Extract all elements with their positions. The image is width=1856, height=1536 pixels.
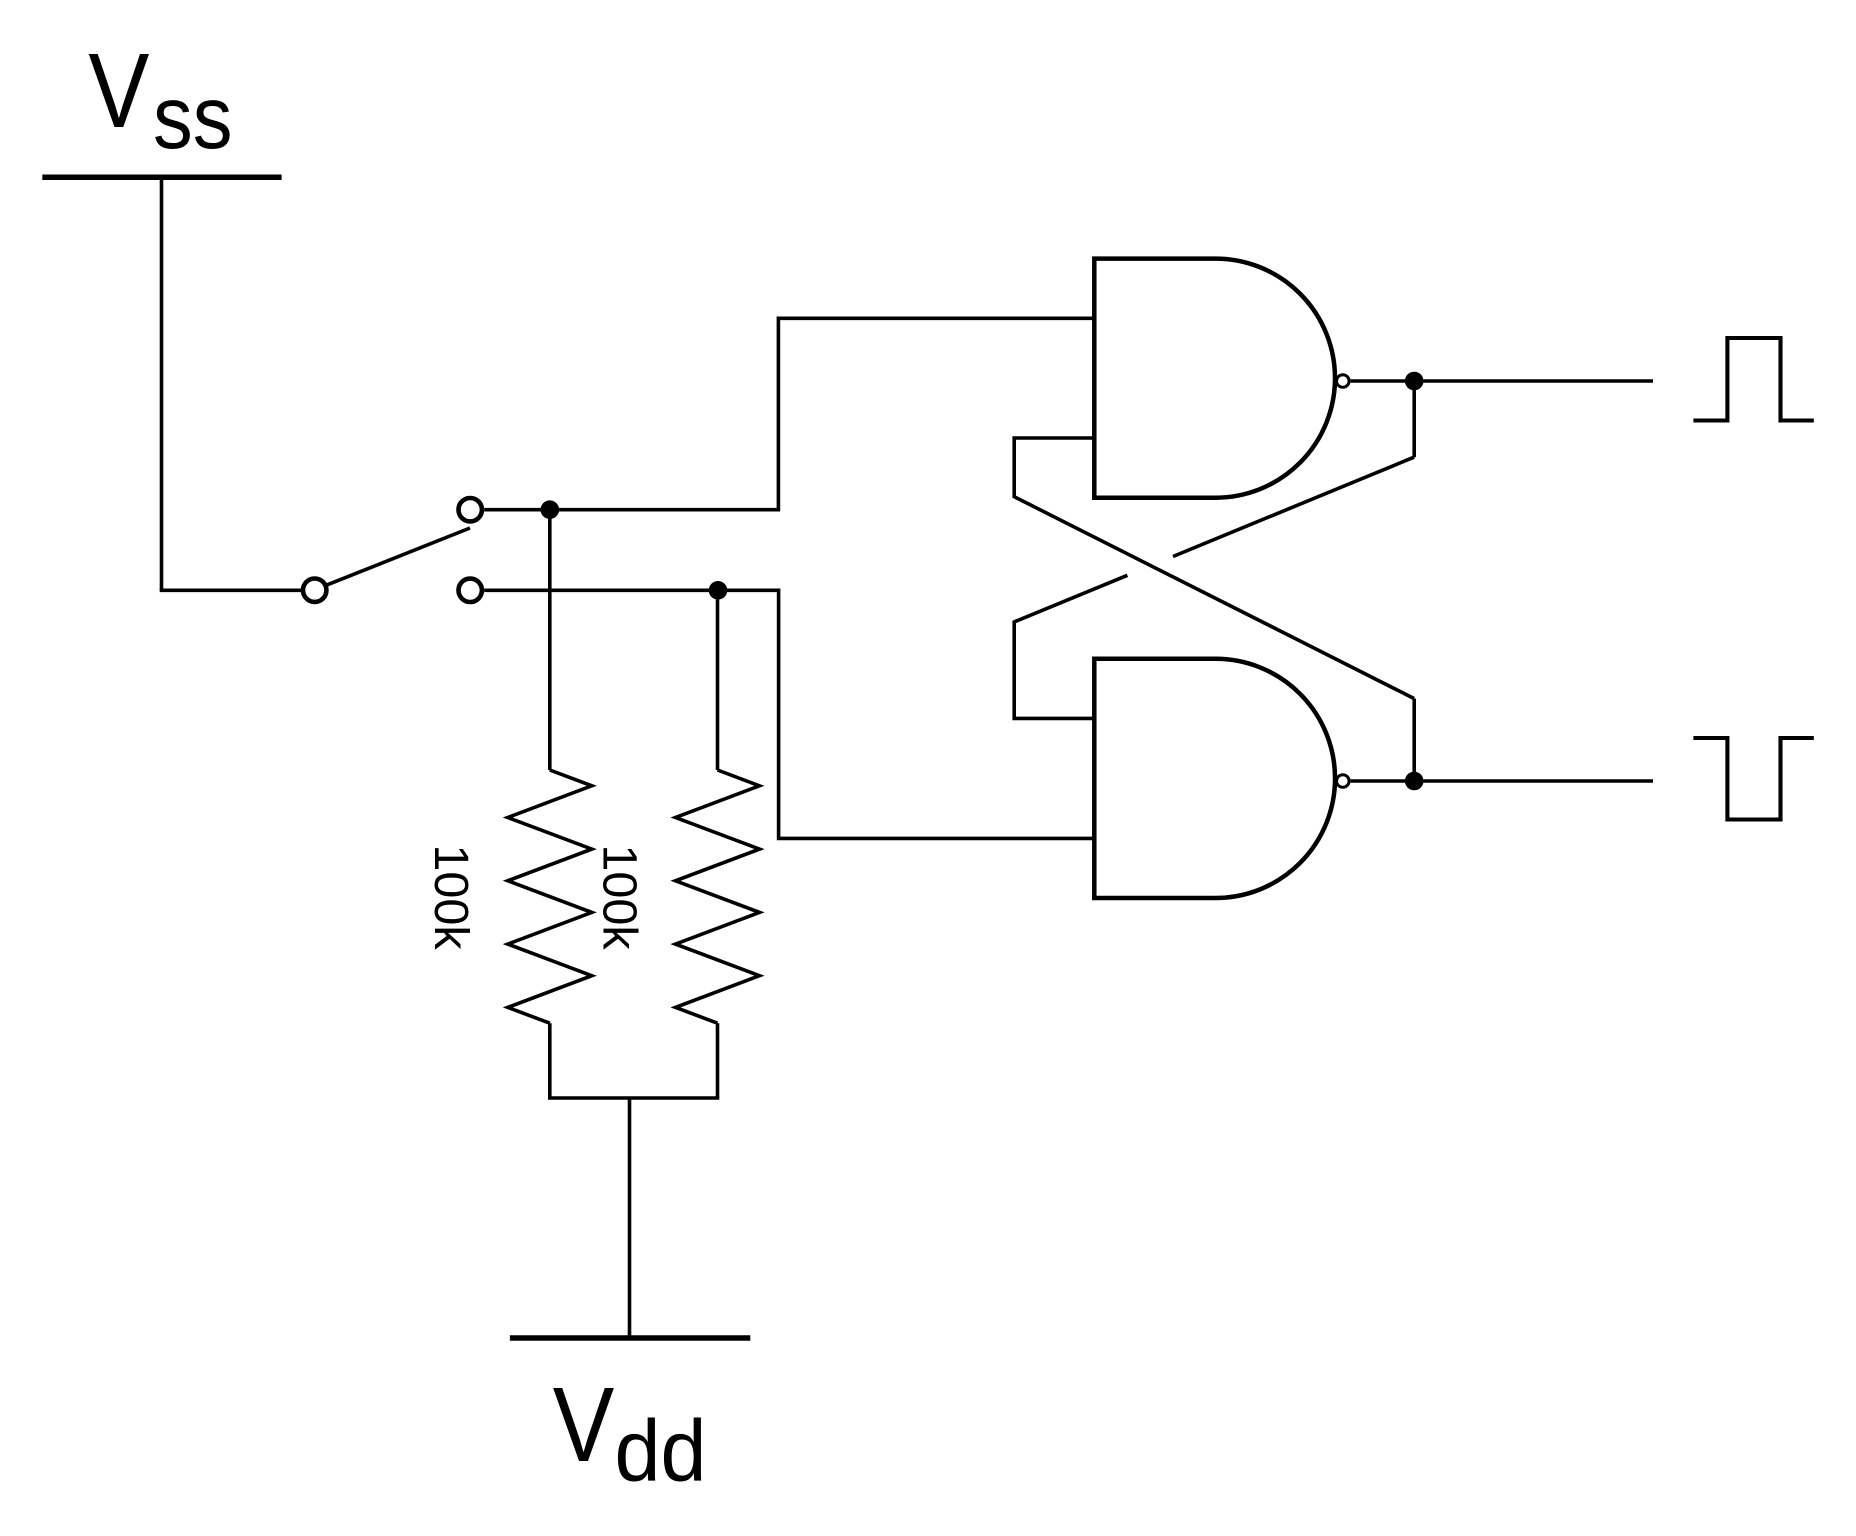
NAND gate U1 output bubble <box>1337 375 1350 388</box>
resistor R2 zigzag <box>676 770 760 1023</box>
wire to Vdd rail <box>628 1098 632 1338</box>
wire node A to resistor R1 <box>548 510 552 770</box>
switch SW1 throw 1 terminal <box>459 498 482 521</box>
node Vss label <box>88 32 232 167</box>
NAND gate U2 output bubble <box>1337 775 1350 788</box>
junction U1 output node Q <box>1405 372 1424 391</box>
NAND gate U1 body <box>1094 259 1335 498</box>
svg-text:V: V <box>88 32 149 150</box>
svg-text:ss: ss <box>153 67 233 167</box>
wire to switch pole (horizontal) <box>160 588 302 592</box>
Vdd power rail <box>510 1335 750 1341</box>
wire U1 bubble to output node <box>1351 379 1415 383</box>
junction U2 output node Qbar <box>1405 772 1424 791</box>
wire feedback Qbar to U1 input (vertical rise) <box>1412 699 1416 781</box>
waveform positive pulse at Q output <box>1693 338 1813 421</box>
svg-text:dd: dd <box>615 1402 707 1500</box>
wire feedback Qbar into U1 bottom input <box>1014 438 1094 498</box>
switch SW1 blade (arm) <box>327 528 470 585</box>
wire resistor R1 bottom lead <box>548 1023 552 1098</box>
wire feedback Q to U2 input (vertical drop) <box>1412 381 1416 457</box>
wire Vss rail to switch pole (vertical) <box>160 177 164 590</box>
Vss power rail <box>42 175 281 181</box>
wire throw1 to node A and gate U1 input corner <box>484 318 1094 509</box>
wire node B to resistor R2 <box>716 590 720 770</box>
NAND gate U2 body <box>1094 659 1335 898</box>
junction node B <box>709 581 728 600</box>
wire feedback Qbar diagonal (continuous) <box>1014 497 1414 699</box>
svg-text:100k: 100k <box>424 844 478 950</box>
wire throw2 to node B and gate U2 input corner <box>484 590 1094 838</box>
svg-text:V: V <box>553 1366 615 1484</box>
svg-text:100k: 100k <box>593 844 647 950</box>
node Vdd label <box>553 1366 707 1500</box>
wire U2 output to right <box>1414 779 1653 783</box>
switch SW1 throw 2 terminal <box>459 579 482 602</box>
resistor R1 zigzag <box>508 770 592 1023</box>
wire feedback Q diagonal segment 1 (breaks at crossover) <box>1173 457 1414 556</box>
wire resistor R2 bottom lead <box>716 1023 720 1098</box>
switch SW1 pole terminal <box>303 579 326 602</box>
wire feedback Q into U2 top input <box>1014 621 1094 719</box>
wire U1 output to right <box>1414 379 1653 383</box>
wire U2 bubble to output node <box>1351 779 1415 783</box>
waveform negative pulse at Qbar output <box>1693 738 1813 820</box>
wire joining resistor bottoms <box>548 1096 719 1100</box>
wire feedback Q diagonal segment 2 <box>1014 575 1127 622</box>
junction node A <box>541 500 560 519</box>
